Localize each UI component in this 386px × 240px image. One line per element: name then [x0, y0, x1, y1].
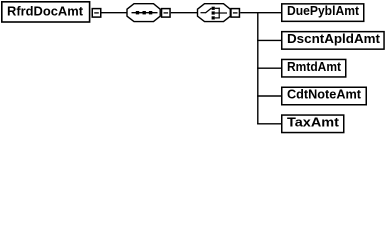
choice compositor: [198, 4, 231, 22]
collapse box 1: [92, 9, 101, 18]
svg-text:DuePyblAmt: DuePyblAmt: [287, 3, 360, 18]
wire choice to branch trunk: [240, 12, 258, 14]
branch trunk: [257, 13, 259, 124]
element RmtdAmt: [282, 59, 346, 77]
element RfrdDocAmt: [2, 2, 90, 22]
wire sequence to choice: [171, 12, 198, 14]
svg-text:CdtNoteAmt: CdtNoteAmt: [287, 87, 362, 102]
element DuePyblAmt: [282, 3, 364, 21]
stub to DscntApldAmt: [257, 39, 281, 41]
element CdtNoteAmt: [282, 87, 367, 105]
sequence compositor: [127, 4, 160, 22]
wire element to sequence: [102, 12, 128, 14]
svg-text:DscntApldAmt: DscntApldAmt: [287, 31, 381, 46]
svg-text:RfrdDocAmt: RfrdDocAmt: [7, 4, 84, 19]
svg-text:TaxAmt: TaxAmt: [287, 114, 340, 129]
collapse box 3: [231, 9, 240, 18]
stub to CdtNoteAmt: [257, 95, 281, 97]
stub to TaxAmt: [257, 123, 281, 125]
svg-text:RmtdAmt: RmtdAmt: [287, 59, 342, 74]
stub to RmtdAmt: [257, 67, 281, 69]
element DscntApldAmt: [282, 31, 384, 49]
collapse box 2: [162, 9, 171, 18]
element TaxAmt: [282, 114, 344, 132]
stub to DuePyblAmt: [257, 12, 281, 14]
